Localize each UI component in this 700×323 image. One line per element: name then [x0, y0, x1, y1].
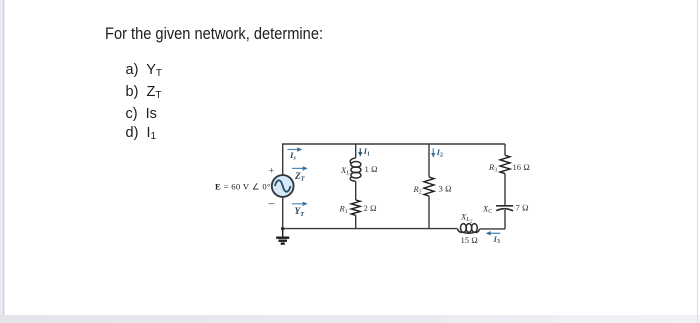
svg-text:YT: YT	[295, 206, 306, 218]
title text	[105, 24, 323, 44]
wire top	[282, 143, 505, 145]
inductor XL2	[458, 224, 480, 234]
wire right upper	[504, 144, 506, 155]
node ground junction	[281, 227, 285, 231]
svg-text:R2: R2	[413, 184, 422, 195]
wire bottom right	[480, 228, 505, 230]
inductor XL1	[350, 158, 361, 181]
svg-text:16 Ω: 16 Ω	[513, 162, 530, 172]
svg-text:ZT: ZT	[294, 171, 306, 183]
svg-text:7 Ω: 7 Ω	[516, 203, 529, 213]
arrow ZT	[292, 166, 308, 170]
svg-text:1 Ω: 1 Ω	[365, 164, 378, 174]
svg-text:3 Ω: 3 Ω	[439, 184, 452, 194]
wire branch1 upper	[355, 144, 357, 158]
svg-text:2 Ω: 2 Ω	[364, 203, 377, 213]
resistor R1	[351, 200, 360, 215]
wire branch1 middle	[355, 181, 357, 200]
resistor R3	[500, 155, 510, 173]
wire branch2 upper	[428, 144, 430, 177]
svg-text:E = 60 V ∠ 0°: E = 60 V ∠ 0°	[215, 181, 271, 191]
arrow Is	[288, 147, 303, 151]
svg-text:XL2: XL2	[460, 212, 473, 225]
wire bottom left	[282, 228, 458, 230]
svg-text:+: +	[269, 166, 274, 176]
svg-text:R3: R3	[488, 162, 497, 173]
wire left lower	[282, 197, 284, 229]
capacitor XC	[496, 206, 513, 211]
svg-text:I3: I3	[493, 234, 500, 245]
left gray edge strip	[0, 0, 5, 323]
svg-text:I1: I1	[363, 146, 370, 157]
ground	[276, 229, 289, 244]
voltage source E	[272, 175, 294, 197]
svg-text:R1: R1	[339, 204, 348, 215]
arrow I2	[431, 148, 435, 157]
arrow YT	[292, 202, 308, 206]
wire right lower	[504, 210, 506, 229]
arrow I3	[486, 231, 501, 235]
svg-text:–: –	[268, 196, 276, 210]
arrow I1	[358, 148, 362, 156]
resistor R2	[424, 177, 434, 196]
wire branch1 lower	[355, 215, 357, 228]
svg-text:15 Ω: 15 Ω	[461, 235, 478, 245]
svg-text:I2: I2	[436, 147, 443, 158]
right faint edge	[697, 0, 698, 323]
item list	[126, 61, 162, 146]
wire branch2 lower	[428, 196, 430, 229]
wire left upper	[282, 144, 284, 175]
wire right middle	[504, 174, 506, 206]
svg-text:Is: Is	[289, 150, 296, 162]
svg-text:XL1: XL1	[340, 165, 352, 178]
svg-text:XC: XC	[482, 204, 492, 215]
bottom gray strip	[0, 315, 700, 323]
